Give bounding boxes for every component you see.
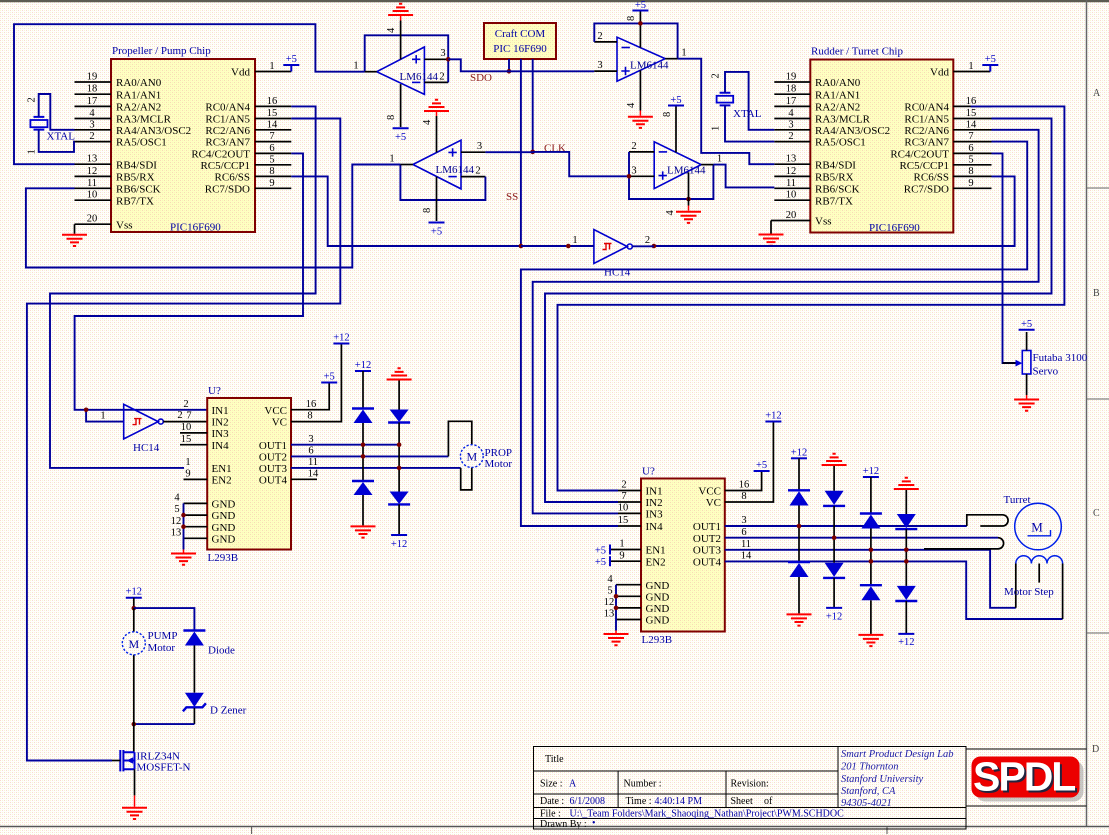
GND pins 4,5,12,13 stubs [184,503,208,538]
svg-text:3: 3 [440,48,445,59]
svg-text:+5: +5 [286,54,297,65]
pin 19 (RA0/AN0) of right PIC [774,81,810,83]
hysteresis glyph of HC14 top [603,244,612,250]
svg-text:19: 19 [786,72,797,83]
op-amp A1 LM6144 (left-pointing) [377,47,425,94]
svg-text:15: 15 [966,108,977,119]
pin 14 OUT4 stub [291,478,317,480]
wire GND bus of left L293B [183,503,185,549]
svg-text:+5: +5 [595,546,606,557]
inverter HC14 top [594,230,632,264]
wire RC2/AN6 right to IN3 [533,130,1039,514]
wire GND bus right L293B [615,585,617,631]
svg-text:4: 4 [665,210,676,216]
wire A4 feedback loop [629,152,713,199]
svg-text:7: 7 [269,131,274,142]
svg-text:IN2: IN2 [212,417,229,429]
svg-text:8: 8 [307,411,312,422]
ground above A1 [388,4,413,15]
svg-text:D Zener: D Zener [210,705,247,717]
pin 11 OUT3 wire to motor bottom [291,467,461,469]
svg-text:13: 13 [171,527,182,538]
svg-text:+12: +12 [355,360,371,371]
svg-text:Title: Title [545,754,564,765]
svg-text:14: 14 [267,119,278,130]
pin 6 (RC4/C2OUT) of right PIC [953,152,991,154]
node HC14 top input [566,244,571,249]
wire A3 feedback loop [594,23,677,58]
bottom zone tick 1 [251,827,253,835]
chip U? L293B left outline [207,398,291,550]
diode D2 (up) [352,480,374,482]
pin 14 OUT4 wire to stepper [725,561,1063,619]
svg-text:3: 3 [631,165,636,176]
svg-text:Sheet: Sheet [731,796,753,807]
svg-text:+5: +5 [985,54,996,65]
sheet frame bottom border [0,826,1109,828]
svg-text:PROP: PROP [485,447,513,459]
ground below diode column R1 [787,614,812,625]
svg-text:XTAL: XTAL [733,108,762,120]
svg-text:OUT3: OUT3 [259,463,288,475]
pin 4 of A3 [639,70,641,110]
svg-text:6: 6 [269,143,274,154]
pin 4 (RA3/MCLR) of right PIC [774,118,810,120]
motor M3 PUMP [133,608,135,724]
svg-text:2: 2 [89,131,94,142]
svg-text:OUT1: OUT1 [693,521,721,533]
svg-text:MOSFET-N: MOSFET-N [137,762,191,774]
pin 3 (RA4/AN3/OSC2) of right PIC [774,129,810,131]
svg-text:1: 1 [711,126,722,131]
svg-text:RC1/AN5: RC1/AN5 [904,114,949,126]
pin 17 (RA2/AN2) of left PIC [75,105,112,107]
ground above diode column B [387,368,412,379]
wire RC1/AN5 right to IN2 [545,119,1052,503]
chip body U? L293B right [641,479,725,632]
svg-text:VCC: VCC [698,486,721,498]
wire HC14 left output to IN2 [163,421,207,423]
pin 20 Vss of left PIC [75,223,112,225]
power +5 below A1 [393,127,409,129]
svg-text:Motor: Motor [485,458,513,470]
diode Diode (flyback) [183,629,205,631]
Craft COM PIC16F690 box [484,23,556,59]
svg-text:LM6144: LM6144 [400,71,439,83]
svg-text:1: 1 [619,539,624,550]
sheet frame top edge [0,0,1109,2]
power +12 below column B [391,534,407,536]
svg-text:9: 9 [269,178,274,189]
pin 6 OUT2 wire to turret plug [725,537,998,539]
svg-text:8: 8 [626,16,637,21]
svg-text:SDO: SDO [470,72,492,84]
svg-text:U?: U? [642,466,655,478]
svg-text:4: 4 [788,108,794,119]
svg-text:RA1/AN1: RA1/AN1 [815,89,860,101]
svg-text:IN1: IN1 [212,405,229,417]
svg-text:OUT4: OUT4 [693,556,722,568]
svg-text:A: A [1093,88,1101,99]
potentiometer Futaba 3100 servo body [1022,351,1031,375]
pin 2 (RA5/OSC1) of left PIC [75,141,112,143]
svg-text:4: 4 [607,574,613,585]
svg-text:Smart Product Design Lab: Smart Product Design Lab [841,749,954,760]
pin 1 Vdd of right PIC [953,71,990,73]
pin 19 (RA0/AN0) of left PIC [75,81,112,83]
svg-text:RA2/AN2: RA2/AN2 [116,102,161,114]
node A1 pin3 junction [446,57,451,62]
chip body U1 Propeller/Pump PIC16F690 [111,59,255,232]
pin 15 (RC1/AN5) of right PIC [953,118,991,120]
svg-text:15: 15 [618,515,629,526]
svg-text:8: 8 [422,208,433,213]
svg-text:RA1/AN1: RA1/AN1 [116,89,161,101]
op-amp U1 left PIC16F690 outline [111,59,255,232]
svg-text:2: 2 [645,235,650,246]
pin 9 (RC7/SDO) of left PIC [255,187,291,189]
pin 4 of A1 [400,21,402,60]
chip U? L293B right outline [641,479,725,632]
svg-text:8: 8 [269,166,274,177]
ground below MOSFET [122,808,147,819]
svg-text:PIC 16F690: PIC 16F690 [493,43,547,55]
svg-text:20: 20 [786,210,797,221]
pin 16 VCC wire to +5 [291,383,329,410]
svg-text:6: 6 [968,143,973,154]
svg-text:Date :: Date : [540,796,564,807]
svg-text:RC1/AN5: RC1/AN5 [205,114,250,126]
svg-text:LM6144: LM6144 [436,164,475,176]
op-amp A4 LM6144 (right-pointing) [654,142,701,189]
node A4 rail junction [686,197,691,202]
pin 4 (RA3/MCLR) of left PIC [75,118,112,120]
svg-text:1: 1 [27,149,38,154]
pin 4 of A4 [688,172,690,205]
svg-text:10: 10 [618,503,629,514]
pin 5 (RC5/CCP1) of left PIC [255,164,291,166]
node column A OUT2 junction [361,454,366,459]
wire pump to MOSFET drain [133,724,136,752]
svg-text:12: 12 [87,166,98,177]
wire SS line through HC14 top input [521,245,594,247]
svg-text:IN1: IN1 [646,486,663,498]
svg-text:RA3/MCLR: RA3/MCLR [116,114,172,126]
svg-text:OUT2: OUT2 [259,452,287,464]
power +12 below diode column R2 [826,607,842,609]
svg-text:RA4/AN3/OSC2: RA4/AN3/OSC2 [815,125,890,137]
chip U2 right PIC16F690 outline [810,60,953,233]
svg-text:IN4: IN4 [646,521,664,533]
connector plug OUT2 (turret) [924,538,1004,549]
svg-text:3: 3 [788,119,793,130]
pin 4 of A2 [436,116,438,152]
svg-text:Vdd: Vdd [231,67,250,79]
pin 3 stub of A3 [594,70,617,72]
logo SPDL red plate [972,757,1080,798]
svg-text:M: M [466,450,477,464]
wire MOSFET source to ground [134,769,136,795]
pin 10 IN3 stub [180,432,207,434]
diode (up) bottom of column R1 [788,561,810,563]
pin 1 output stub of A3 [665,58,677,60]
inverter HC14 left [124,404,164,439]
svg-text:2: 2 [439,72,444,83]
pin 8 of A2 [436,177,438,221]
servo top lead to +5 [1026,332,1028,351]
node A4 pin3 junction [627,174,632,179]
svg-text:11: 11 [87,178,97,189]
node column B OUT3 junction [397,466,402,471]
motor PROP hook top [448,421,471,456]
pin 3 OUT1 wire to turret plug [725,525,967,527]
svg-text:1: 1 [572,235,577,246]
stepper coil left lead [1015,564,1017,608]
svg-text:13: 13 [87,154,98,165]
svg-text:+5: +5 [595,557,606,568]
svg-text:3: 3 [597,60,602,71]
svg-text:8: 8 [968,166,973,177]
stepper coil centre lead [1038,564,1040,583]
ground at left PIC Vss [74,224,76,234]
svg-text:1: 1 [185,457,190,468]
svg-text:GND: GND [646,580,670,592]
svg-text:201 Thornton: 201 Thornton [841,762,898,773]
junction at HC14 input branch [84,408,89,413]
pin numbers IN1-IN4 right L293B [618,491,641,527]
svg-text:L293B: L293B [208,552,239,564]
pin 17 (RA2/AN2) of right PIC [774,105,810,107]
pin 2 stub of A1 [424,81,448,83]
pin 9 EN2 stub [184,478,208,480]
wire pump bottom branch [134,723,195,725]
svg-text:U?: U? [208,385,221,397]
svg-text:6: 6 [741,527,746,538]
svg-text:VC: VC [706,497,721,509]
svg-text:15: 15 [181,434,192,445]
wire op-amp1 output loop to RB4/SDI (node SDI) [14,24,365,164]
pin 6 (RC4/C2OUT) of left PIC [255,152,291,154]
svg-text:11: 11 [741,539,751,550]
diode (down) bottom of column R2 [825,563,844,577]
svg-text:Turret: Turret [1004,494,1031,506]
svg-text:2: 2 [711,73,722,78]
node D1 OUT1 junction [361,442,366,447]
pin 20 Vss of right PIC [771,220,810,222]
svg-text:+12: +12 [126,587,142,598]
svg-text:Size :: Size : [540,779,563,790]
svg-text:M: M [128,637,139,651]
svg-text:•: • [592,818,596,829]
pin 6 OUT2 wire to motor top [291,455,448,457]
svg-text:9: 9 [619,550,624,561]
diode (down) bottom of column R4 [897,586,916,600]
svg-text:OUT4: OUT4 [259,474,288,486]
node SS junction [519,244,524,249]
svg-text:4:40:14 PM: 4:40:14 PM [655,796,703,807]
svg-text:8: 8 [741,491,746,502]
hysteresis glyph of HC14 left [133,419,142,425]
pin 1 output stub of A1 [365,71,377,73]
pin 1 output stub of A4 [701,164,713,166]
svg-text:Craft COM: Craft COM [495,28,546,40]
svg-text:RB6/SCK: RB6/SCK [815,183,860,195]
pin 3 stub of A4 [629,175,654,177]
svg-text:4: 4 [174,493,180,504]
svg-text:9: 9 [968,178,973,189]
svg-text:1: 1 [353,61,358,72]
logo SPDL shadow [976,761,1084,802]
svg-text:PIC16F690: PIC16F690 [170,222,221,234]
pin 11 OUT3 wire to stepper [725,550,1016,608]
ground above diode column R4 [894,478,919,489]
motor PROP hook bottom [461,468,472,490]
svg-text:RB4/SDI: RB4/SDI [116,159,157,171]
svg-text:5: 5 [174,504,179,515]
node HC14 top output [652,244,657,249]
wire RC6/SS right to HC14 output line [654,176,1015,246]
svg-text:10: 10 [181,422,192,433]
svg-text:Vss: Vss [116,219,133,231]
svg-text:RB5/RX: RB5/RX [815,172,854,184]
pin 8 of A4 [675,106,677,153]
op-amp A3 LM6144 (right-pointing) [617,37,665,81]
svg-text:RC4/C2OUT: RC4/C2OUT [890,149,949,161]
wire crystal-left pin1 to RA5 [39,130,75,152]
op-amp A2 LM6144 (left-pointing) [413,140,461,189]
pin 7 (RC3/AN7) of right PIC [953,141,991,143]
svg-text:1: 1 [717,154,722,165]
svg-text:D: D [1092,744,1099,755]
svg-text:Number :: Number : [624,779,662,790]
wire crystal-left pin2 to RA4 [39,94,75,130]
ground below A3 [639,111,641,116]
pin 16 (RC0/AN4) of right PIC [953,105,991,107]
svg-text:Futaba 3100: Futaba 3100 [1033,352,1088,364]
servo wiper arrow [1003,362,1017,364]
svg-text:14: 14 [308,468,319,479]
svg-text:4: 4 [422,119,433,125]
servo bottom lead to ground [1026,374,1028,395]
node CLK junction [530,150,535,155]
svg-text:RB7/TX: RB7/TX [815,195,853,207]
svg-text:RA4/AN3/OSC2: RA4/AN3/OSC2 [116,125,191,137]
svg-text:Vdd: Vdd [930,67,949,79]
power +5 above A3 [632,10,648,12]
pin 16 VCC wire to +5 [725,471,762,491]
wire pump top branch [134,608,195,630]
pin 8 of A1 [400,84,402,127]
zone divider C/D [1087,632,1109,634]
wire A1 feedback loop [365,35,449,82]
svg-text:Motor Step: Motor Step [1004,586,1054,598]
power +5 at left PIC Vdd [283,65,299,72]
svg-text:5: 5 [968,154,973,165]
svg-text:Vss: Vss [815,216,832,228]
svg-text:3: 3 [89,119,94,130]
pin 8 VC wire to +12 [291,344,341,422]
ground below column A [351,526,376,537]
svg-text:U:\_Team Folders\Mark_Shaoqing: U:\_Team Folders\Mark_Shaoqing_Nathan\Pr… [570,809,845,820]
svg-text:7: 7 [621,491,626,502]
svg-text:Drawn By :: Drawn By : [540,819,587,830]
svg-text:3: 3 [741,515,746,526]
svg-text:GND: GND [646,591,670,603]
pin 11 (RB6/SCK) of right PIC [774,187,810,189]
svg-text:SS: SS [506,191,518,203]
pin 18 (RA1/AN1) of right PIC [774,93,810,95]
svg-text:2: 2 [183,399,188,410]
svg-text:+12: +12 [826,612,842,623]
svg-text:17: 17 [87,96,98,107]
pin 8 (RC6/SS) of right PIC [953,175,991,177]
svg-text:18: 18 [87,84,98,95]
wire crystal-right pin2 to RA4 [725,72,774,130]
wire branch HC14 input [86,410,124,422]
power +5 below A2 [429,222,445,224]
svg-text:RC6/SS: RC6/SS [215,172,250,184]
wire RC1/AN5 to MOSFET gate [27,119,340,761]
svg-text:OUT3: OUT3 [693,545,722,557]
svg-text:2: 2 [621,480,626,491]
wire Craft COM SDO tap [508,59,510,71]
svg-text:+5: +5 [1021,319,1032,330]
crystal XTAL right [717,93,734,106]
pin 8 VC wire to +12 [725,422,774,503]
pin 10 (RB7/TX) of left PIC [75,199,112,201]
node pump top junction [132,606,137,611]
svg-text:of: of [764,796,773,807]
svg-text:Rudder / Turret Chip: Rudder / Turret Chip [811,46,903,58]
svg-text:GND: GND [212,522,236,534]
svg-text:1: 1 [389,154,394,165]
svg-text:SPDL: SPDL [973,754,1075,800]
svg-text:OUT2: OUT2 [693,533,721,545]
svg-text:+5: +5 [635,0,646,11]
svg-text:GND: GND [646,615,670,627]
connector plug OUT1 (turret) [967,515,1008,526]
svg-text:Stanford University: Stanford University [841,774,923,785]
svg-text:RC5/CCP1: RC5/CCP1 [200,160,250,172]
diode D Zener [185,693,204,707]
svg-text:LM6144: LM6144 [667,164,706,176]
svg-text:+5: +5 [431,227,442,238]
svg-text:1: 1 [681,48,686,59]
diode (up) top of column R1 [788,489,810,491]
svg-text:+12: +12 [898,637,914,648]
svg-text:RB6/SCK: RB6/SCK [116,183,161,195]
svg-text:RB4/SDI: RB4/SDI [815,159,856,171]
svg-text:RC2/AN6: RC2/AN6 [904,125,949,137]
svg-text:RA5/OSC1: RA5/OSC1 [815,137,866,149]
svg-text:EN1: EN1 [646,545,666,557]
svg-text:L293B: L293B [642,634,673,646]
wire RC0/AN4 to EN1 of left L293B [50,106,316,468]
pin 3 OUT1 wire [291,444,399,446]
svg-text:Time :: Time : [626,796,652,807]
svg-text:7: 7 [186,411,191,422]
svg-text:1: 1 [100,411,105,422]
svg-text:8: 8 [386,115,397,120]
svg-text:2: 2 [27,97,38,102]
svg-text:16: 16 [306,399,317,410]
svg-text:+12: +12 [333,333,349,344]
svg-text:Propeller / Pump Chip: Propeller / Pump Chip [112,45,211,57]
pin 15 (RC1/AN5) of left PIC [255,118,291,120]
svg-text:Revision:: Revision: [731,779,769,790]
svg-text:7: 7 [968,131,973,142]
svg-text:2: 2 [177,410,182,421]
